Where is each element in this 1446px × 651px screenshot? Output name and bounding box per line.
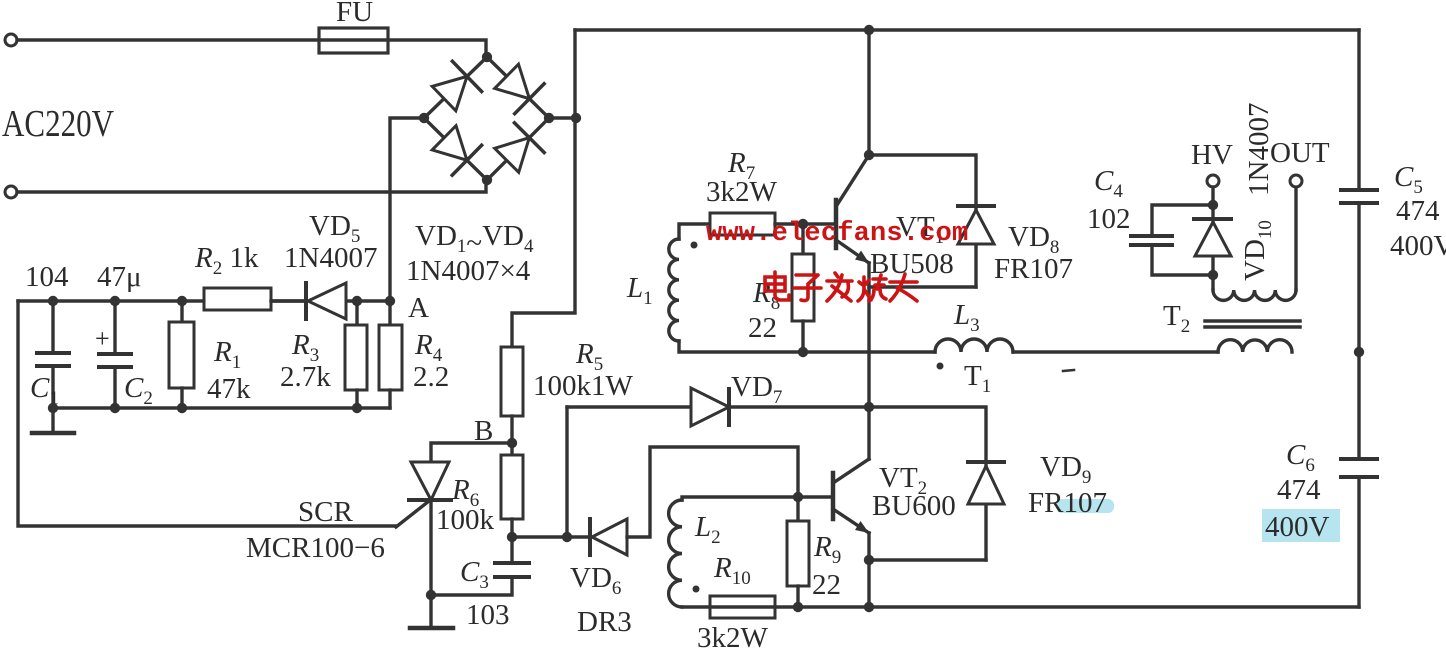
svg-text:2.2: 2.2: [413, 361, 449, 393]
junction node A: [385, 296, 395, 306]
wire VD8 bottom return: [869, 285, 976, 288]
watermark char fa: [827, 273, 852, 301]
wire VD8 top: [869, 155, 976, 206]
wire VD9 bottom return: [869, 558, 986, 561]
wire VT2 base node to L2: [682, 497, 798, 500]
junction bridge bottom: [482, 175, 492, 185]
wire top bus: [18, 299, 306, 302]
thyristor SCR anode wire: [431, 443, 512, 462]
resistor R10: [710, 596, 775, 618]
watermark char zi: [794, 275, 821, 301]
wire DC+ vertical to R5: [512, 30, 575, 347]
junction VD10 top: [1208, 200, 1218, 210]
svg-text:47μ: 47μ: [97, 261, 142, 293]
transistor VT1 BU508: [834, 200, 839, 248]
junction bridge right: [544, 113, 554, 123]
wire R7 to base node: [775, 222, 836, 225]
AC live terminal: [5, 34, 17, 46]
inductor L2: [669, 500, 682, 607]
junction VT2 emitter / VD9 return: [864, 555, 874, 565]
phase dot L1: [691, 242, 698, 249]
watermark char you: [890, 274, 917, 301]
svg-text:22: 22: [812, 569, 841, 601]
svg-text:+: +: [95, 324, 110, 353]
svg-text:R2 1k: R2 1k: [194, 242, 259, 279]
watermark char dian: [765, 272, 789, 300]
resistor R2: [204, 288, 271, 310]
wire R6 bottom to VD6 node: [512, 535, 567, 538]
junction bridge left: [419, 113, 429, 123]
wire right rail bottom: [1357, 477, 1360, 607]
svg-text:BU600: BU600: [872, 490, 956, 522]
capacitor C6: [1341, 457, 1377, 461]
wire top rail: [575, 28, 1359, 31]
junction R6 bottom: [507, 532, 517, 542]
diode VD7: [691, 388, 729, 426]
wire C4 bottom branch: [1152, 245, 1213, 275]
terminal HV: [1207, 175, 1219, 187]
wire bridge right to DC+ rail: [549, 116, 575, 119]
svg-text:www.elecfans.com: www.elecfans.com: [706, 219, 968, 249]
capacitor C2 electrolytic: [113, 301, 116, 354]
svg-text:SCR: SCR: [298, 496, 353, 528]
capacitor C1: [51, 301, 54, 353]
junction R7/R8/base: [798, 219, 808, 229]
wire SCR cathode down: [429, 500, 432, 595]
junction VT2 emitter bottom rail: [864, 602, 874, 612]
diode VD5: [304, 283, 308, 319]
wire L1 top to R7: [679, 224, 710, 239]
junction C1 top: [48, 296, 58, 306]
wire AC neutral to bridge bottom: [17, 180, 486, 192]
svg-text:400V: 400V: [1265, 511, 1330, 543]
terminal OUT: [1290, 175, 1302, 187]
wire VD6 node to diode: [567, 535, 590, 538]
wire VT2 emitter down: [867, 533, 870, 607]
junction VT2 base node: [793, 492, 803, 502]
ground below SCR: [429, 595, 432, 628]
wire VD7 anode: [567, 405, 691, 408]
junction R9/R10 bottom: [793, 602, 803, 612]
junction R1 top: [177, 296, 187, 306]
junction T2 primary to right rail: [1354, 347, 1364, 357]
svg-text:102: 102: [1087, 203, 1131, 235]
svg-text:1N4007: 1N4007: [284, 242, 377, 274]
svg-text:OUT: OUT: [1270, 137, 1330, 169]
transformer T2 secondary winding: [1211, 275, 1214, 290]
svg-text:2.7k: 2.7k: [280, 361, 331, 393]
svg-text:22: 22: [748, 312, 777, 344]
svg-text:104: 104: [25, 261, 69, 293]
svg-text:100k1W: 100k1W: [533, 370, 634, 402]
svg-text:3k2W: 3k2W: [706, 176, 778, 208]
junction VD6 node: [562, 532, 572, 542]
inductor L1: [669, 239, 679, 341]
junction C2 bottom: [110, 403, 120, 413]
diode VD3 (bridge bottom-left): [429, 123, 481, 175]
ground below C1: [51, 408, 54, 433]
wire VD6 to VT2 base node: [627, 447, 798, 537]
transistor VT1 collector wire: [867, 30, 870, 155]
transistor VT2 BU600: [831, 473, 836, 519]
svg-text:AC220V: AC220V: [2, 103, 114, 145]
diode VD2 (bridge top-right): [492, 61, 544, 113]
wire right rail middle: [1357, 203, 1360, 459]
resistor R3: [355, 301, 358, 325]
capacitor C4: [1131, 234, 1172, 238]
watermark char shao: [858, 275, 886, 301]
junction VT1 emitter / VT2 collector node: [864, 402, 874, 412]
wire bottom rail: [682, 605, 1359, 608]
junction bridge top: [482, 52, 492, 62]
diode VD6 DR3: [588, 519, 592, 555]
svg-text:DR3: DR3: [577, 606, 632, 638]
svg-text:FR107: FR107: [1028, 487, 1107, 519]
wire bus VD5 to node A: [346, 299, 390, 302]
svg-text:B: B: [474, 415, 493, 447]
wire bottom bus: [53, 406, 390, 409]
wire OUT stem: [1294, 187, 1297, 290]
svg-text:103: 103: [466, 599, 510, 631]
wire AC live to fuse and bridge: [17, 40, 486, 57]
svg-text:3k2W: 3k2W: [697, 622, 769, 651]
bridge diamond wires: [424, 57, 549, 180]
resistor R1: [180, 301, 183, 322]
diode VD8 FR107: [974, 206, 977, 287]
svg-text:FU: FU: [336, 0, 373, 28]
junction R3 bottom: [352, 403, 362, 413]
wire bridge left to node A: [390, 118, 424, 301]
svg-text:HV: HV: [1191, 139, 1233, 171]
capacitor C3: [510, 537, 513, 563]
artifact dash near T1: [1063, 370, 1074, 371]
junction C1 bottom: [48, 403, 58, 413]
fuse FU: [319, 28, 388, 53]
svg-text:MCR100−6: MCR100−6: [246, 532, 385, 564]
wire C4 top branch: [1152, 205, 1213, 236]
svg-text:1N4007×4: 1N4007×4: [406, 255, 531, 287]
AC neutral terminal: [5, 186, 17, 198]
diode VD4 (bridge bottom-right): [492, 123, 544, 175]
highlight behind FR107: [1056, 499, 1114, 513]
resistor R4: [388, 301, 391, 325]
diode VD9 FR107: [984, 462, 987, 560]
wire VT2 base: [798, 495, 833, 498]
junction R1 bottom: [177, 403, 187, 413]
svg-text:474: 474: [1396, 195, 1440, 227]
junction node B: [507, 438, 517, 448]
resistor R8: [801, 224, 804, 254]
junction DC+ node: [571, 113, 581, 123]
svg-text:400V: 400V: [1390, 230, 1446, 262]
wire L1 bottom rail: [679, 341, 935, 352]
phase dot L2: [693, 586, 700, 593]
transformer T2 core: [1205, 319, 1300, 323]
transformer T2 primary winding: [1218, 340, 1292, 352]
resistor R9: [796, 497, 799, 521]
junction R8 bottom: [798, 347, 808, 357]
junction C2 top: [110, 296, 120, 306]
thyristor SCR MCR100-6: [411, 462, 449, 500]
resistor R7: [710, 213, 775, 235]
svg-text:47k: 47k: [207, 373, 251, 405]
wire L3 to T2 rail: [1013, 350, 1218, 353]
diode VD10 1N4007: [1211, 219, 1214, 275]
wire VD7 cathode to VT1 emitter line: [729, 405, 869, 408]
resistor R5: [501, 347, 523, 416]
inductor L3 (T1): [935, 339, 1013, 352]
diode VD1 (bridge top-left): [429, 61, 481, 113]
wire VD9 top: [869, 407, 986, 462]
highlight behind 400V: [1262, 509, 1340, 542]
junction R3 top: [352, 296, 362, 306]
svg-text:FR107: FR107: [994, 253, 1073, 285]
wire R2 right to VD5: [271, 299, 306, 302]
svg-text:100k: 100k: [436, 504, 495, 536]
junction SCR cathode / C3 return: [426, 590, 436, 600]
capacitor C5: [1357, 30, 1360, 190]
wire VT1 emitter down: [867, 263, 870, 459]
junction VT1 collector: [864, 150, 874, 160]
resistor R6: [510, 443, 513, 455]
junction VD10 bottom: [1208, 270, 1218, 280]
phase dot L3: [937, 363, 944, 370]
junction top rail / VT1 collector: [864, 25, 874, 35]
svg-text:474: 474: [1277, 474, 1321, 506]
wire VD6 node up to VD7: [565, 407, 568, 537]
svg-text:A: A: [408, 292, 429, 324]
wire gate loop left: [18, 301, 396, 526]
wire HV stem: [1211, 187, 1214, 219]
wire gate diagonal: [396, 501, 429, 527]
